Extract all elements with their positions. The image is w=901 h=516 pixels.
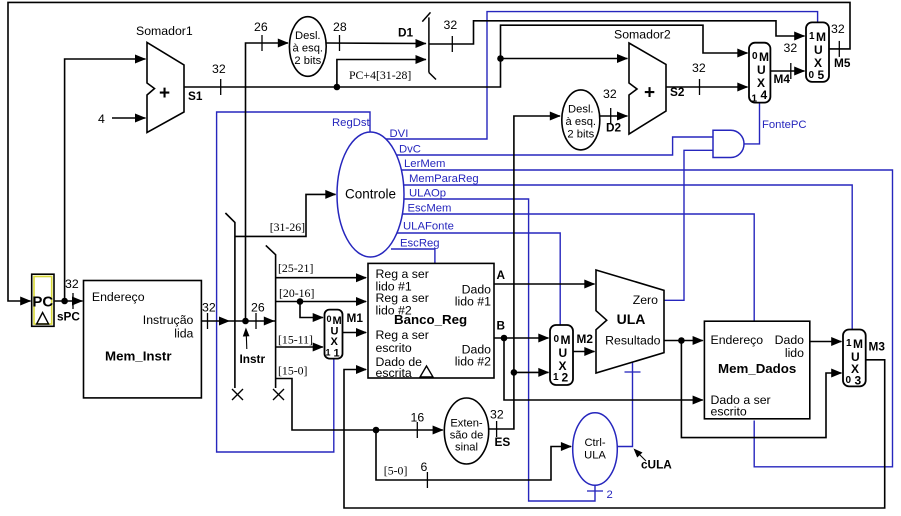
label LerMem <box>404 158 445 170</box>
svg-text:M: M <box>816 30 826 44</box>
label Instr with pointer arrow <box>240 328 266 367</box>
label A <box>497 268 506 282</box>
svg-text:M1: M1 <box>347 311 364 325</box>
label D1 <box>398 26 414 40</box>
svg-text:S2: S2 <box>670 85 685 99</box>
svg-text:Zero: Zero <box>633 293 658 307</box>
label S1 <box>188 89 203 103</box>
wire MemParaReg (Controle to MUX3 select) <box>404 185 852 330</box>
bus width 26 on jump field <box>254 20 268 51</box>
svg-text:4: 4 <box>98 112 105 126</box>
label M3 <box>869 340 886 354</box>
memory Mem_Dados <box>704 321 809 419</box>
svg-text:DVI: DVI <box>390 128 409 140</box>
svg-text:Resultado: Resultado <box>605 334 661 348</box>
svg-text:0: 0 <box>752 51 758 62</box>
bus width 32 on M4 <box>784 41 798 79</box>
wire B: Banco_Reg Dado lido 2 to MUX2 input 0 and Mem_Dados write data <box>494 334 704 405</box>
wire [15-11] to MUX1 input 1 <box>276 343 324 352</box>
wire jump address: concatenator to MUX5 input 1 <box>429 21 805 44</box>
svg-text:32: 32 <box>603 87 617 101</box>
svg-text:ULA: ULA <box>584 450 606 462</box>
svg-text:1: 1 <box>809 31 815 42</box>
wire EscReg (Controle to Banco_Reg write enable) <box>391 249 435 263</box>
wire ULAFonte (Controle to MUX2 select) <box>397 233 560 325</box>
label cULA <box>634 449 673 472</box>
wire LerMem (Controle to Mem_Dados read enable) <box>402 170 893 467</box>
bus width 32 on M5 output <box>831 22 845 57</box>
svg-text:[20-16]: [20-16] <box>279 286 314 300</box>
svg-text:LerMem: LerMem <box>404 158 445 170</box>
bus width 28 on D1 <box>333 20 347 51</box>
svg-text:Somador2: Somador2 <box>614 28 671 42</box>
svg-text:Instrução: Instrução <box>143 313 194 327</box>
bus width 32 on Instr <box>202 301 216 315</box>
label RegDst <box>332 117 371 129</box>
svg-text:+: + <box>644 83 655 104</box>
svg-text:2: 2 <box>607 489 613 501</box>
svg-text:Somador1: Somador1 <box>136 24 193 38</box>
wire M1: MUX1 output to Banco_Reg write reg <box>343 328 368 337</box>
adder Somador2 <box>629 43 666 134</box>
svg-text:A: A <box>497 268 506 282</box>
wire ES: sign-extend output up to shifter2 and MUX2 input 1 <box>489 112 561 430</box>
label ULAFonte <box>403 221 454 233</box>
label M4 <box>774 72 791 86</box>
wire M5 output loop back to PC <box>8 2 850 305</box>
bus width 32 on S2 <box>692 61 706 95</box>
svg-text:lido: lido <box>785 346 804 360</box>
svg-text:Endereço: Endereço <box>711 333 764 347</box>
wire Zero (ULA to AND gate) <box>664 150 713 300</box>
wire D2: shifter2 output to Somador2 <box>600 112 628 121</box>
label MemParaReg <box>409 173 479 185</box>
svg-text:Mem_Dados: Mem_Dados <box>718 361 796 376</box>
svg-text:M: M <box>759 50 769 64</box>
svg-text:1: 1 <box>334 348 340 360</box>
svg-text:26: 26 <box>254 20 268 34</box>
svg-text:[31-26]: [31-26] <box>270 220 305 234</box>
svg-text:à esq.: à esq. <box>566 116 596 128</box>
svg-text:FontePC: FontePC <box>762 119 807 131</box>
shifter Desl. a esq. 2 bits (jump) <box>289 17 326 77</box>
adder Somador1 <box>147 42 184 132</box>
sign extender Extensao de sinal <box>444 398 488 464</box>
svg-text:sPC: sPC <box>57 310 80 324</box>
svg-text:lido #2: lido #2 <box>455 355 491 369</box>
instruction field trunk (with hook and cut mark) <box>266 245 284 400</box>
svg-text:1: 1 <box>553 372 559 383</box>
svg-text:D2: D2 <box>606 121 622 135</box>
wire RegDst (Controle to MUX1 select) <box>217 112 370 452</box>
svg-text:U: U <box>757 63 766 77</box>
svg-text:Banco_Reg: Banco_Reg <box>394 312 467 327</box>
control unit Controle <box>337 132 404 257</box>
svg-text:3: 3 <box>855 374 862 388</box>
wire EscMem (Controle to Mem_Dados write enable) <box>402 214 754 321</box>
svg-text:PC+4[31-28]: PC+4[31-28] <box>349 68 411 82</box>
svg-text:[15-0]: [15-0] <box>278 364 308 378</box>
svg-text:Endereço: Endereço <box>92 290 145 304</box>
label [20-16] <box>279 286 314 300</box>
wire DvC (Controle to AND gate) <box>397 137 713 155</box>
svg-text:[15-11]: [15-11] <box>278 333 313 347</box>
wire [5-0] funct field to Ctrl-ULA <box>376 430 572 488</box>
junction on S1 for PC+4[31-28] branch to concatenator <box>334 55 427 90</box>
svg-text:ES: ES <box>495 435 511 449</box>
alu ULA <box>596 270 664 373</box>
label D2 <box>606 121 622 135</box>
svg-text:ULAFonte: ULAFonte <box>403 221 454 233</box>
svg-text:32: 32 <box>202 301 216 315</box>
bus width 6 <box>421 460 428 474</box>
svg-text:2 bits: 2 bits <box>567 129 594 141</box>
instruction bus vertical (with hook and cut mark) <box>225 213 243 400</box>
constant 4 input to Somador1 <box>98 112 146 126</box>
svg-text:32: 32 <box>212 62 226 76</box>
svg-text:M5: M5 <box>834 56 851 70</box>
svg-text:Desl.: Desl. <box>295 30 321 42</box>
svg-text:0: 0 <box>846 375 852 386</box>
label M2 <box>577 332 594 346</box>
svg-text:6: 6 <box>421 460 428 474</box>
mux MUX1 <box>325 310 343 360</box>
svg-text:+: + <box>159 83 170 104</box>
mux MUX3 <box>843 330 866 388</box>
mux MUX4 <box>749 43 770 105</box>
junction on S1 for Somador2 branch <box>497 54 628 63</box>
label Somador2 <box>614 28 671 42</box>
svg-text:lido #1: lido #1 <box>455 295 491 309</box>
wire sPC: PC output to Mem_Instr <box>54 293 83 309</box>
svg-text:PC: PC <box>32 294 53 311</box>
label EscReg <box>400 238 440 250</box>
svg-text:S1: S1 <box>188 89 203 103</box>
label DvC <box>399 144 421 156</box>
svg-text:são de: são de <box>450 430 484 442</box>
wire D1: shifter output to concatenator <box>326 39 427 48</box>
svg-text:U: U <box>559 346 568 360</box>
svg-text:32: 32 <box>784 41 798 55</box>
label [15-0] <box>278 364 308 378</box>
bus width 32 on ES <box>490 408 504 438</box>
svg-text:sinal: sinal <box>455 442 478 454</box>
wire M3: MUX3 output loop back to Banco_Reg Dado de escrita <box>344 360 885 508</box>
svg-text:Mem_Instr: Mem_Instr <box>105 349 172 364</box>
svg-text:2 bits: 2 bits <box>294 55 321 67</box>
label [15-11] <box>278 333 313 347</box>
AND gate (branch) <box>713 130 744 157</box>
svg-text:Dado: Dado <box>775 333 805 347</box>
svg-text:Exten-: Exten- <box>450 418 483 430</box>
bus width 26 on Instr <box>251 301 265 315</box>
label M1 <box>347 311 364 325</box>
bus width 16 <box>411 411 425 425</box>
svg-text:28: 28 <box>333 20 347 34</box>
svg-text:escrito: escrito <box>376 341 412 355</box>
svg-text:1: 1 <box>846 338 852 349</box>
bus width 2 <box>607 489 613 501</box>
svg-text:Instr: Instr <box>240 352 266 366</box>
wire FontePC (AND gate to MUX4 select) <box>744 103 760 144</box>
svg-text:26: 26 <box>251 301 265 315</box>
svg-text:Ctrl-: Ctrl- <box>584 437 605 449</box>
label PC+4[31-28] <box>349 68 411 82</box>
svg-text:M3: M3 <box>869 340 886 354</box>
bus width 32 on D2 <box>603 87 617 124</box>
svg-text:[25-21]: [25-21] <box>278 261 313 275</box>
label [5-0] <box>384 464 408 478</box>
wire M4: MUX4 output to MUX5 input 0 <box>770 67 805 76</box>
svg-text:4: 4 <box>761 88 768 102</box>
svg-text:32: 32 <box>65 277 79 291</box>
label S2 <box>670 85 685 99</box>
svg-text:M: M <box>853 337 863 351</box>
svg-text:1: 1 <box>752 94 758 105</box>
alu control Ctrl-ULA <box>573 413 618 486</box>
label Somador1 <box>136 24 193 38</box>
wire [20-16] to Banco_Reg read reg 2 and MUX1 input 0 <box>276 297 367 322</box>
svg-text:escrita: escrita <box>376 366 412 380</box>
concatenator bar <box>422 12 436 79</box>
svg-text:EscReg: EscReg <box>400 238 440 250</box>
wire [25-21] to Banco_Reg read reg 1 <box>276 273 367 282</box>
wire [31-26] opcode to Controle <box>235 190 336 237</box>
svg-text:0: 0 <box>554 334 560 345</box>
svg-text:MemParaReg: MemParaReg <box>409 173 479 185</box>
svg-text:0: 0 <box>327 314 332 324</box>
svg-text:cULA: cULA <box>641 458 672 472</box>
svg-text:5: 5 <box>818 68 825 82</box>
label ULAOp <box>409 188 446 200</box>
bus width 32 on jump address <box>444 18 458 52</box>
svg-text:RegDst: RegDst <box>332 117 371 129</box>
wire M2: MUX2 output to ULA input 2 <box>573 347 595 356</box>
wire ULAOp (Controle to Ctrl-ULA) <box>404 199 603 501</box>
label B <box>497 319 506 333</box>
shifter Desl. a esq. 2 bits (branch) <box>562 90 600 150</box>
svg-text:EscMem: EscMem <box>408 203 452 215</box>
label [31-26] <box>270 220 305 234</box>
wire [15-0] immediate to sign-extend <box>276 379 444 439</box>
register PC <box>32 274 54 326</box>
svg-text:X: X <box>331 336 339 348</box>
svg-text:32: 32 <box>831 22 845 36</box>
wire Instr: Mem_Instr output to instruction buses <box>201 313 275 329</box>
wire S1 (PC+4) to Somador2, MUX4 input 0 <box>184 25 748 87</box>
svg-text:1: 1 <box>326 348 331 358</box>
wire Dado lido: Mem_Dados output to MUX3 input 1 <box>810 337 842 346</box>
svg-text:Reg a ser: Reg a ser <box>376 328 429 342</box>
label sPC <box>57 310 80 324</box>
label FontePC <box>762 119 807 131</box>
svg-text:U: U <box>814 43 823 57</box>
svg-text:escrito: escrito <box>711 405 747 419</box>
register file Banco_Reg <box>368 263 494 380</box>
svg-text:ULA: ULA <box>617 311 646 327</box>
svg-text:32: 32 <box>692 61 706 75</box>
label M5 <box>834 56 851 70</box>
svg-text:[5-0]: [5-0] <box>384 464 408 478</box>
svg-text:M2: M2 <box>577 332 594 346</box>
wire A: Banco_Reg Dado lido 1 to ULA <box>494 280 595 289</box>
label [25-21] <box>278 261 313 275</box>
svg-text:DvC: DvC <box>399 144 421 156</box>
svg-text:32: 32 <box>490 408 504 422</box>
mux MUX2 <box>550 325 573 385</box>
label ES <box>495 435 511 449</box>
wire DVI (Controle to MUX5 select) <box>384 12 818 139</box>
label EscMem <box>408 203 452 215</box>
bus width 32 on sPC <box>65 277 79 291</box>
svg-text:D1: D1 <box>398 26 414 40</box>
svg-text:M4: M4 <box>774 72 791 86</box>
svg-text:2: 2 <box>562 371 569 385</box>
junction ES to MUX2 input 1 <box>511 368 550 377</box>
svg-text:0: 0 <box>809 70 815 81</box>
wire PC value up to Somador1 input <box>65 55 146 302</box>
memory Mem_Instr <box>84 281 202 398</box>
svg-text:M: M <box>561 333 571 347</box>
svg-text:à esq.: à esq. <box>293 43 323 55</box>
bus width 32 on S1 <box>212 62 226 95</box>
svg-text:Desl.: Desl. <box>568 104 594 116</box>
mux MUX5 <box>806 22 829 82</box>
svg-text:32: 32 <box>444 18 458 32</box>
svg-text:16: 16 <box>411 411 425 425</box>
svg-text:B: B <box>497 319 506 333</box>
svg-text:Controle: Controle <box>345 187 396 202</box>
wire cULA (Ctrl-ULA to ULA control) <box>617 362 640 447</box>
wire Resultado: ULA result to Mem_Dados address and MUX3 input 0 <box>664 336 842 438</box>
wire 26-bit jump field up to shifter <box>246 39 289 322</box>
label DVI <box>390 128 409 140</box>
svg-text:ULAOp: ULAOp <box>409 188 446 200</box>
svg-text:lida: lida <box>174 327 193 341</box>
wire S2: Somador2 output to MUX4 input 1 <box>666 83 748 92</box>
